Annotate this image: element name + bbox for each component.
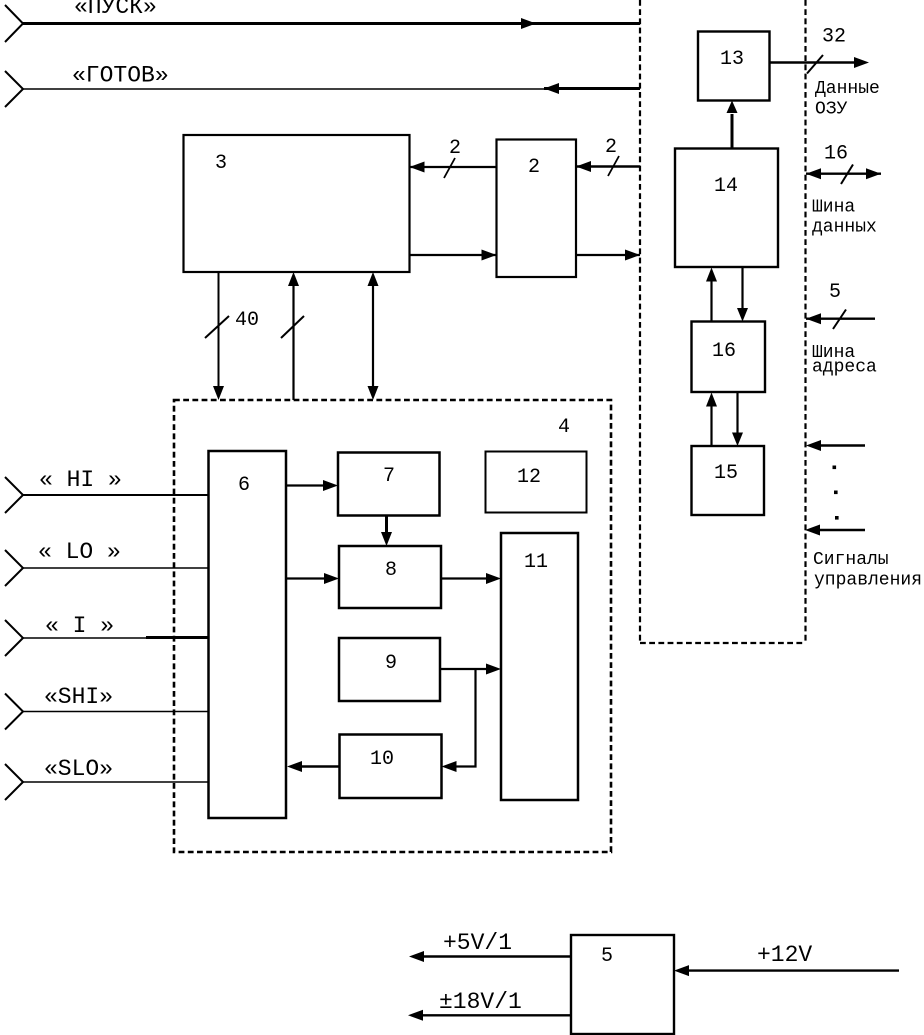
- wire 3 to 2: [410, 254, 497, 256]
- arrowhead 3 to 2: [482, 250, 497, 261]
- arrowhead «ПУСК»: [521, 18, 536, 29]
- wire 6 to 8: [286, 577, 325, 579]
- input chevron «ПУСК»: [5, 5, 23, 42]
- dashed interface boundary bottom: [640, 642, 806, 644]
- arrowhead data bus right: [866, 168, 881, 179]
- wire «LO»: [23, 567, 209, 569]
- wire 6 to 7: [286, 484, 324, 486]
- svg-text:15: 15: [714, 462, 738, 485]
- svg-text:данных: данных: [812, 218, 877, 238]
- wire ±18V output: [422, 1014, 571, 1016]
- block 2: [497, 140, 577, 278]
- arrowhead 6 to 8: [324, 573, 339, 584]
- svg-text:« LO »: « LO »: [38, 539, 121, 565]
- svg-text:16: 16: [824, 143, 848, 166]
- wire «I» bold segment: [146, 636, 209, 639]
- arrowhead ±18V: [408, 1010, 423, 1021]
- wire «HI»: [23, 494, 209, 496]
- arrowhead 6 to 7: [323, 480, 338, 491]
- svg-text:2: 2: [528, 156, 540, 179]
- wire address bus: [806, 318, 875, 320]
- svg-text:Сигналы: Сигналы: [813, 550, 889, 570]
- ellipsis dot 1: [833, 466, 837, 470]
- wire 10 to 6: [301, 765, 340, 768]
- bus slash 2to3: [444, 158, 455, 178]
- arrowhead down (bidir): [368, 386, 379, 400]
- wire +5V output: [423, 955, 571, 957]
- input chevron «ГОТОВ»: [5, 71, 23, 107]
- ellipsis dot 2: [834, 491, 838, 495]
- wire unit 4 up to 3: [292, 285, 294, 400]
- block 6: [209, 451, 287, 818]
- wire «ГОТОВ» thick: [544, 87, 640, 90]
- svg-text:9: 9: [385, 652, 397, 675]
- arrowhead control signal 1: [806, 440, 821, 451]
- arrowhead 8 to 11: [486, 573, 501, 584]
- wire 14 to 13: [731, 114, 734, 149]
- svg-text:адреса: адреса: [812, 358, 877, 378]
- arrowhead 2 to 3: [410, 162, 425, 173]
- svg-text:8: 8: [385, 559, 397, 582]
- svg-text:32: 32: [822, 26, 846, 49]
- arrowhead into 10: [442, 761, 457, 772]
- wire 13 to RAM data out: [770, 61, 857, 63]
- wire 14 down to 16: [741, 267, 743, 309]
- arrowhead 9 to 11: [486, 664, 501, 675]
- arrowhead address bus: [806, 313, 821, 324]
- dashed unit 4 boundary: [174, 400, 611, 852]
- svg-text:4: 4: [558, 416, 570, 439]
- arrowhead 14 to 16: [737, 308, 748, 322]
- svg-text:16: 16: [712, 340, 736, 363]
- svg-text:3: 3: [215, 152, 227, 175]
- dashed interface boundary left: [639, 0, 641, 643]
- bidirectional wire 3 and unit 4: [372, 284, 374, 388]
- input chevron «I»: [5, 620, 23, 656]
- arrowhead 16 to 14: [706, 268, 717, 282]
- svg-text:40: 40: [235, 309, 259, 332]
- wire «ГОТОВ» thin: [23, 88, 544, 90]
- wire 16 up to 14: [710, 280, 712, 322]
- arrowhead up into 3: [288, 272, 299, 286]
- bus slash 16: [841, 165, 853, 185]
- input chevron «LO»: [5, 550, 23, 586]
- arrowhead 2 to interface: [625, 250, 640, 261]
- arrowhead 14 to 13: [727, 101, 738, 114]
- wire into 2 from interface: [576, 165, 640, 168]
- svg-text:2: 2: [605, 136, 617, 159]
- svg-text:ОЗУ: ОЗУ: [815, 100, 848, 120]
- svg-text:10: 10: [370, 748, 394, 771]
- svg-text:±18V/1: ±18V/1: [439, 989, 522, 1015]
- wire 16 down to 15: [736, 392, 738, 433]
- bus slash 5: [833, 310, 846, 330]
- bus slash into 2: [608, 156, 619, 176]
- arrowhead 15 to 16: [706, 393, 717, 407]
- block 7: [338, 453, 440, 516]
- svg-text:12: 12: [517, 466, 541, 489]
- bus slash 40: [205, 316, 229, 338]
- svg-text:7: 7: [383, 465, 395, 488]
- svg-text:Данные: Данные: [815, 79, 880, 99]
- wire 8 to 11: [441, 577, 487, 579]
- block 16: [692, 322, 766, 393]
- block 12: [486, 452, 587, 513]
- svg-text:«SLO»: «SLO»: [44, 756, 113, 782]
- svg-text:«ГОТОВ»: «ГОТОВ»: [72, 63, 169, 89]
- svg-text:управления: управления: [814, 571, 922, 591]
- arrowhead 7 to 8: [381, 532, 392, 546]
- block 15: [692, 446, 765, 515]
- block 10: [340, 735, 442, 799]
- arrowhead 16 to 15: [732, 433, 743, 447]
- svg-text:2: 2: [449, 137, 461, 160]
- wire 9 to 11: [440, 668, 487, 670]
- bus slash (second): [281, 316, 304, 338]
- bus slash 32: [807, 55, 823, 74]
- wire control signal 1: [818, 444, 865, 446]
- block 13: [698, 32, 770, 101]
- svg-text:13: 13: [720, 48, 744, 71]
- arrowhead «ГОТОВ»: [544, 83, 559, 94]
- arrowhead +5V: [409, 951, 424, 962]
- dashed interface boundary right: [804, 0, 806, 643]
- svg-text:11: 11: [524, 551, 548, 574]
- wire «SHI»: [23, 711, 209, 713]
- input chevron «SHI»: [5, 694, 23, 730]
- wire 2 to interface: [576, 254, 640, 256]
- input chevron «SLO»: [5, 764, 23, 800]
- ellipsis dot 3: [835, 516, 839, 520]
- svg-text:5: 5: [601, 945, 613, 968]
- arrowhead 10 to 6: [287, 761, 302, 772]
- block 14: [675, 149, 778, 268]
- svg-text:14: 14: [714, 175, 738, 198]
- wire «SLO»: [23, 781, 209, 783]
- wire 3 down to unit 4: [218, 272, 220, 387]
- input chevron «HI»: [5, 477, 23, 513]
- svg-text:+5V/1: +5V/1: [443, 930, 512, 956]
- arrowhead up (bidir): [368, 272, 379, 286]
- wire 2 to 3: [410, 166, 497, 168]
- arrowhead RAM data out: [854, 57, 869, 68]
- wire data bus: [806, 172, 881, 174]
- svg-text:« HI »: « HI »: [39, 467, 122, 493]
- wire +12V input: [688, 969, 899, 971]
- wire «I»: [23, 637, 209, 639]
- wire 15 up to 16: [710, 405, 712, 446]
- block 8: [339, 546, 441, 608]
- block 11: [501, 533, 578, 800]
- svg-text:Шина: Шина: [812, 198, 855, 218]
- arrowhead +12V: [674, 965, 689, 976]
- block 3: [184, 135, 410, 272]
- wire 7 to 8: [385, 516, 388, 534]
- svg-text:«ПУСК»: «ПУСК»: [74, 0, 157, 20]
- svg-text:«SHI»: «SHI»: [44, 684, 113, 710]
- arrowhead control signal 2: [805, 525, 820, 536]
- arrowhead data bus left: [806, 168, 821, 179]
- svg-text:+12V: +12V: [757, 942, 812, 968]
- wire control signal 2: [817, 529, 865, 531]
- svg-text:« I »: « I »: [45, 613, 114, 639]
- svg-text:5: 5: [829, 281, 841, 304]
- block 9: [339, 638, 440, 701]
- block 5: [571, 935, 674, 1034]
- svg-text:6: 6: [238, 474, 250, 497]
- wire branch down to 10: [456, 669, 476, 767]
- arrowhead down into unit 4: [213, 386, 224, 400]
- wire «ПУСК»: [23, 22, 640, 25]
- arrowhead into 2: [576, 161, 591, 172]
